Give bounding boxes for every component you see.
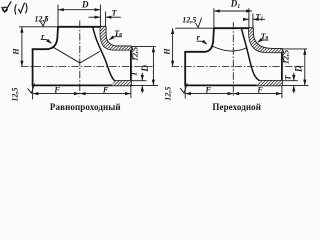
(√) [15, 3, 27, 15]
D1 dim line [214, 10, 252, 12]
inner bore slant + break curve [93, 27, 115, 81]
run bottom [33, 84, 131, 86]
H dim line [172, 28, 174, 66]
inner bottom line [115, 80, 131, 82]
saddle intersection curve [213, 46, 246, 51]
inner bottom line [260, 80, 282, 82]
svg-text:12,5: 12,5 [182, 16, 196, 25]
svg-text:F: F [53, 85, 60, 94]
run centerline [172, 66, 304, 68]
right top ext [282, 48, 307, 50]
hatched bottom band right tee [257, 81, 282, 86]
run centerline [21, 66, 153, 68]
intersection V left arm [53, 47, 80, 63]
svg-text:12,5: 12,5 [11, 88, 20, 102]
svg-text:Тв: Тв [261, 32, 269, 41]
run top left [33, 48, 46, 50]
hatched bend band right tee [249, 28, 282, 52]
svg-text:D: D [140, 65, 150, 73]
svg-text:12,5: 12,5 [163, 87, 172, 101]
bend wall inner [249, 28, 282, 52]
F dim line [185, 93, 282, 95]
D right dim line [152, 46, 154, 85]
svg-text:Переходной: Переходной [212, 102, 261, 112]
r leader [197, 41, 207, 44]
F dimension line [33, 93, 131, 95]
svg-text:F: F [205, 85, 212, 94]
roughness symbol top-left (circle check) [2, 1, 12, 12]
D1 ext left [213, 8, 215, 28]
T dimension line right part [106, 16, 121, 18]
svg-text:12,5: 12,5 [131, 47, 140, 61]
ext for T outer [105, 12, 107, 27]
Tv leader [110, 37, 122, 40]
right end ext down [281, 85, 283, 98]
run left end face [32, 49, 34, 85]
svg-text:F: F [102, 85, 109, 94]
branch top edge [58, 26, 106, 28]
svg-text:12,5: 12,5 [282, 50, 291, 64]
left end ext down [32, 85, 34, 99]
run bottom [185, 84, 282, 86]
bend wall outer [106, 27, 131, 47]
branch left wall + fillet r [46, 27, 58, 49]
right bottom ext [131, 84, 158, 86]
T right dim stems [141, 73, 143, 93]
branch top edge [214, 27, 253, 29]
Tv leader [258, 40, 269, 42]
ext for D left [57, 5, 59, 27]
branch centerline [232, 22, 234, 97]
D1/T1 ext inner [248, 8, 250, 28]
svg-text:D: D [294, 65, 304, 73]
top extension line [175, 27, 214, 29]
r leader [41, 39, 52, 43]
hatched bottom band [112, 81, 131, 86]
svg-text:D: D [81, 0, 89, 9]
bend wall inner [100, 27, 130, 50]
T1 ext outer [252, 14, 254, 29]
D right dim line [304, 49, 306, 86]
right top ext [131, 45, 156, 47]
svg-text:F: F [256, 85, 263, 94]
inner bore slant + break curve [241, 28, 259, 80]
thin lines: extensions, centerlines, dimensions [19, 5, 158, 100]
hatched bend band [100, 27, 130, 50]
T inner ext [282, 80, 298, 82]
right end face [130, 46, 132, 85]
arrows [58, 8, 64, 11]
svg-text:H: H [12, 48, 21, 56]
run left end face [184, 52, 186, 86]
right end ext down [130, 85, 132, 98]
svg-text:Тв: Тв [114, 29, 122, 38]
svg-text:12,5: 12,5 [35, 14, 49, 23]
T inner ext [131, 80, 147, 82]
svg-text:H: H [162, 48, 171, 56]
intersection V right arm [80, 52, 99, 63]
ext for D/T right inner [99, 5, 101, 27]
branch centerline [79, 21, 81, 97]
T1 dim right stem [253, 18, 265, 20]
run top left [185, 51, 204, 53]
svg-text:Равнопроходный: Равнопроходный [50, 102, 121, 112]
H dimension line [21, 27, 23, 67]
T right dim stems [293, 73, 295, 93]
branch left wall + fillet [204, 28, 214, 52]
T dimension line left part [89, 16, 101, 18]
left end ext down [184, 85, 186, 98]
top extension line (12,5 shelf) [19, 26, 58, 28]
right end face [281, 49, 283, 86]
T1 dim left stem [243, 18, 249, 20]
D dimension line [58, 9, 100, 11]
bend wall outer [253, 28, 282, 49]
right bottom ext [282, 84, 309, 86]
